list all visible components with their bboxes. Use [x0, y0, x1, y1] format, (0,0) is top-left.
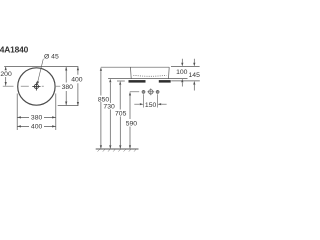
svg-text:145: 145 [189, 72, 200, 79]
svg-text:4A1840: 4A1840 [0, 44, 29, 54]
svg-text:380: 380 [62, 84, 74, 91]
svg-text:730: 730 [103, 104, 115, 111]
svg-text:705: 705 [115, 111, 127, 118]
svg-text:200: 200 [0, 71, 12, 78]
svg-text:850: 850 [98, 96, 110, 103]
svg-text:400: 400 [71, 76, 83, 83]
svg-text:Ø 45: Ø 45 [44, 53, 59, 60]
svg-text:150: 150 [145, 102, 157, 109]
svg-text:380: 380 [31, 115, 43, 122]
svg-text:100: 100 [176, 69, 188, 76]
svg-text:590: 590 [126, 120, 138, 127]
svg-text:400: 400 [31, 124, 43, 131]
